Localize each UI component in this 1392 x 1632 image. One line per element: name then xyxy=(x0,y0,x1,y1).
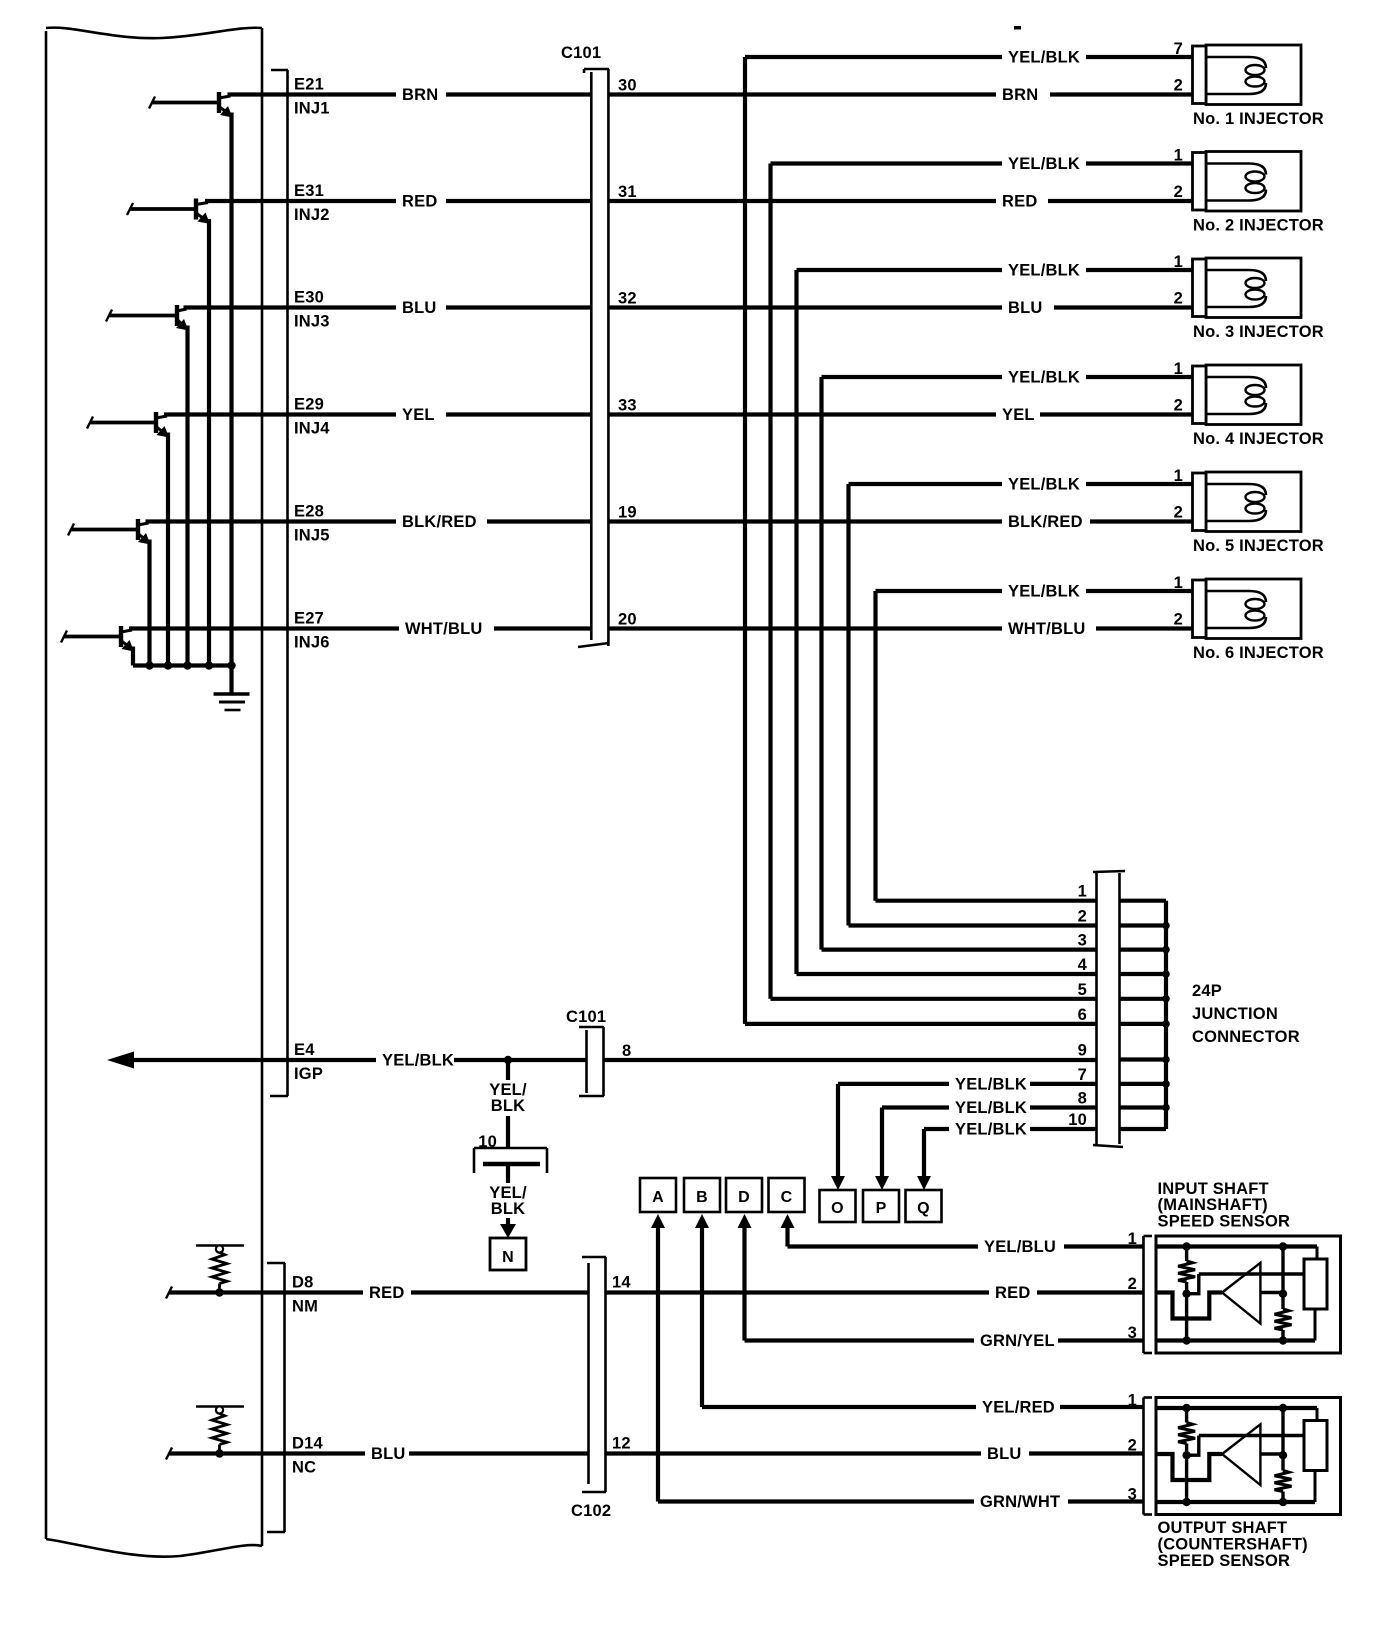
svg-text:2: 2 xyxy=(1174,183,1183,201)
svg-text:8: 8 xyxy=(622,1042,631,1060)
svg-text:GRN/YEL: GRN/YEL xyxy=(980,1332,1055,1350)
svg-text:32: 32 xyxy=(618,290,637,308)
svg-text:1: 1 xyxy=(1128,1230,1137,1248)
svg-text:RED: RED xyxy=(402,193,437,211)
svg-text:E28: E28 xyxy=(294,503,324,521)
svg-text:4: 4 xyxy=(1078,956,1088,974)
svg-text:BRN: BRN xyxy=(402,86,438,104)
svg-text:BLU: BLU xyxy=(402,299,437,317)
svg-text:SPEED SENSOR: SPEED SENSOR xyxy=(1158,1212,1291,1230)
svg-text:YEL/BLK: YEL/BLK xyxy=(1008,262,1080,280)
svg-text:BLU: BLU xyxy=(987,1445,1022,1463)
svg-text:D8: D8 xyxy=(292,1274,314,1292)
svg-text:C: C xyxy=(781,1189,793,1206)
svg-text:YEL/BLK: YEL/BLK xyxy=(382,1052,454,1070)
svg-text:BLU: BLU xyxy=(1008,299,1043,317)
svg-text:BLK: BLK xyxy=(491,1097,526,1115)
svg-text:O: O xyxy=(831,1200,844,1217)
svg-text:C101: C101 xyxy=(566,1008,606,1026)
svg-text:B: B xyxy=(696,1189,708,1206)
svg-text:WHT/BLU: WHT/BLU xyxy=(405,620,482,638)
svg-text:A: A xyxy=(652,1189,664,1206)
svg-text:2: 2 xyxy=(1128,1275,1137,1293)
svg-text:Q: Q xyxy=(917,1200,930,1217)
svg-text:24P: 24P xyxy=(1192,982,1222,1000)
svg-text:1: 1 xyxy=(1174,147,1183,165)
svg-text:YEL/BLK: YEL/BLK xyxy=(955,1099,1027,1117)
svg-text:1: 1 xyxy=(1078,883,1087,901)
svg-text:2: 2 xyxy=(1174,290,1183,308)
svg-text:IGP: IGP xyxy=(294,1065,323,1083)
svg-text:YEL/RED: YEL/RED xyxy=(982,1399,1055,1417)
svg-text:BRN: BRN xyxy=(1002,86,1038,104)
svg-text:No. 6 INJECTOR: No. 6 INJECTOR xyxy=(1193,644,1324,662)
svg-text:C102: C102 xyxy=(571,1502,611,1520)
svg-text:INJ1: INJ1 xyxy=(294,100,330,118)
svg-text:RED: RED xyxy=(995,1284,1030,1302)
svg-text:1: 1 xyxy=(1174,253,1183,271)
svg-text:2: 2 xyxy=(1078,908,1087,926)
svg-text:YEL/BLK: YEL/BLK xyxy=(955,1121,1027,1139)
svg-text:N: N xyxy=(502,1249,514,1266)
svg-text:E21: E21 xyxy=(294,76,324,94)
svg-text:C101: C101 xyxy=(561,44,601,62)
svg-text:33: 33 xyxy=(618,397,637,415)
svg-text:YEL/BLK: YEL/BLK xyxy=(1008,369,1080,387)
svg-text:YEL: YEL xyxy=(402,406,435,424)
svg-text:5: 5 xyxy=(1078,981,1087,999)
svg-text:SPEED SENSOR: SPEED SENSOR xyxy=(1158,1552,1291,1570)
svg-text:(COUNTERSHAFT): (COUNTERSHAFT) xyxy=(1158,1536,1308,1554)
svg-text:RED: RED xyxy=(1002,193,1037,211)
svg-text:14: 14 xyxy=(612,1274,631,1292)
svg-text:12: 12 xyxy=(612,1435,631,1453)
svg-text:D: D xyxy=(738,1189,750,1206)
svg-text:E27: E27 xyxy=(294,610,324,628)
svg-text:INJ2: INJ2 xyxy=(294,206,330,224)
svg-text:8: 8 xyxy=(1078,1090,1087,1108)
svg-text:No. 4 INJECTOR: No. 4 INJECTOR xyxy=(1193,430,1324,448)
svg-text:E31: E31 xyxy=(294,182,324,200)
svg-text:2: 2 xyxy=(1174,77,1183,95)
svg-text:1: 1 xyxy=(1174,467,1183,485)
svg-text:1: 1 xyxy=(1174,360,1183,378)
svg-text:BLK: BLK xyxy=(491,1200,526,1218)
svg-text:CONNECTOR: CONNECTOR xyxy=(1192,1028,1300,1046)
svg-text:E30: E30 xyxy=(294,289,324,307)
svg-text:6: 6 xyxy=(1078,1006,1087,1024)
svg-text:3: 3 xyxy=(1078,932,1087,950)
svg-text:RED: RED xyxy=(369,1284,404,1302)
svg-text:OUTPUT SHAFT: OUTPUT SHAFT xyxy=(1158,1519,1288,1537)
svg-text:BLK/RED: BLK/RED xyxy=(1008,513,1083,531)
svg-text:31: 31 xyxy=(618,183,637,201)
svg-text:INJ3: INJ3 xyxy=(294,313,330,331)
svg-text:YEL/BLK: YEL/BLK xyxy=(1008,49,1080,67)
svg-text:YEL/BLK: YEL/BLK xyxy=(955,1075,1027,1093)
svg-text:E29: E29 xyxy=(294,396,324,414)
svg-text:No. 3 INJECTOR: No. 3 INJECTOR xyxy=(1193,323,1324,341)
svg-text:1: 1 xyxy=(1174,574,1183,592)
svg-text:2: 2 xyxy=(1128,1437,1137,1455)
svg-text:2: 2 xyxy=(1174,504,1183,522)
svg-text:No. 2 INJECTOR: No. 2 INJECTOR xyxy=(1193,217,1324,235)
svg-text:19: 19 xyxy=(618,504,637,522)
svg-text:20: 20 xyxy=(618,611,637,629)
svg-text:YEL: YEL xyxy=(1002,406,1035,424)
svg-text:1: 1 xyxy=(1128,1392,1137,1410)
svg-text:9: 9 xyxy=(1078,1042,1087,1060)
svg-text:No. 1 INJECTOR: No. 1 INJECTOR xyxy=(1193,110,1324,128)
svg-text:3: 3 xyxy=(1128,1324,1137,1342)
svg-text:BLK/RED: BLK/RED xyxy=(402,513,477,531)
svg-text:E4: E4 xyxy=(294,1041,315,1059)
svg-text:YEL/BLK: YEL/BLK xyxy=(1008,476,1080,494)
svg-text:INJ6: INJ6 xyxy=(294,634,330,652)
svg-text:YEL/BLU: YEL/BLU xyxy=(984,1238,1056,1256)
svg-text:BLU: BLU xyxy=(371,1445,406,1463)
svg-text:30: 30 xyxy=(618,77,637,95)
svg-text:JUNCTION: JUNCTION xyxy=(1192,1005,1278,1023)
svg-text:No. 5 INJECTOR: No. 5 INJECTOR xyxy=(1193,537,1324,555)
svg-text:INJ5: INJ5 xyxy=(294,527,330,545)
svg-text:INJ4: INJ4 xyxy=(294,420,330,438)
svg-text:P: P xyxy=(876,1200,887,1217)
svg-text:3: 3 xyxy=(1128,1486,1137,1504)
svg-text:YEL/BLK: YEL/BLK xyxy=(1008,155,1080,173)
svg-text:10: 10 xyxy=(1068,1111,1087,1129)
svg-text:NC: NC xyxy=(292,1459,316,1477)
svg-text:7: 7 xyxy=(1174,40,1183,58)
svg-text:2: 2 xyxy=(1174,397,1183,415)
svg-text:WHT/BLU: WHT/BLU xyxy=(1008,620,1085,638)
svg-text:GRN/WHT: GRN/WHT xyxy=(980,1493,1060,1511)
svg-text:7: 7 xyxy=(1078,1066,1087,1084)
svg-text:YEL/BLK: YEL/BLK xyxy=(1008,583,1080,601)
svg-text:NM: NM xyxy=(292,1298,318,1316)
svg-text:2: 2 xyxy=(1174,611,1183,629)
svg-text:D14: D14 xyxy=(292,1435,323,1453)
